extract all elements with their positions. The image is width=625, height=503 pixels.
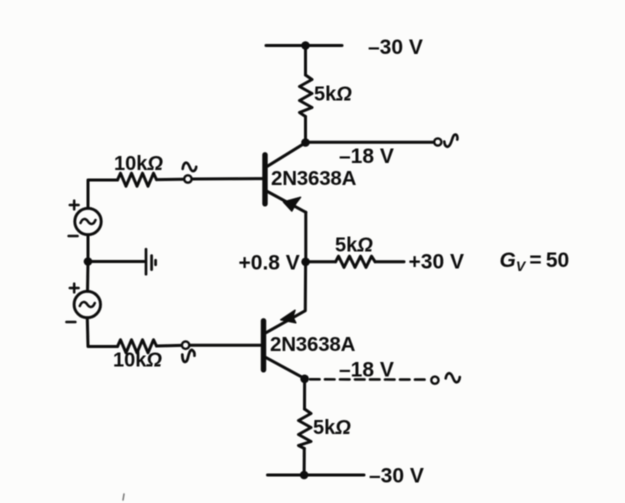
transistor Q2 emitter arrowhead (PNP, points to base) (281, 310, 296, 323)
sine squiggle above top input (183, 163, 197, 171)
wire R2 to +30V (375, 260, 404, 263)
wire V2 bottom to corner and right (87, 318, 117, 347)
wire node down to Q2 emitter (266, 262, 306, 333)
terminal input top (open circle) (184, 175, 191, 182)
wire top supply rail (266, 44, 342, 47)
wire upper output (306, 141, 434, 144)
resistor R2 5k (mid, horizontal) (336, 256, 376, 267)
wire Q1 emitter to node (304, 212, 307, 261)
resistor R5 10k (bottom input) (118, 340, 157, 353)
wire center node to V2 top (86, 262, 90, 292)
wire lower output (dashed) (310, 378, 426, 381)
svg-text:–18 V: –18 V (339, 358, 394, 381)
wire input terminal to Q1 base (192, 177, 262, 180)
wire R4 to input terminal (157, 178, 184, 181)
speck bottom left (123, 494, 124, 500)
wire R5 to input terminal (157, 344, 182, 348)
terminal lower output (open circle) (431, 377, 438, 384)
transistor Q1 emitter lead (267, 191, 306, 212)
sine squiggle lower output (446, 373, 460, 382)
node upper output junction (301, 138, 310, 147)
transistor Q2 collector lead (266, 357, 305, 378)
svg-text:10kΩ: 10kΩ (113, 350, 162, 372)
svg-text:–30 V: –30 V (369, 465, 424, 488)
minus sign V1 (69, 235, 78, 238)
sine squiggle upper output (444, 135, 457, 147)
wire R1 to collector node (304, 117, 307, 143)
plus sign V2 (70, 284, 79, 293)
svg-text:5kΩ: 5kΩ (314, 84, 352, 106)
transistor Q1 emitter arrowhead (PNP, points to base) (284, 197, 301, 211)
resistor R3 5k (bottom, vertical) (299, 409, 312, 449)
transistor Q1 collector lead (267, 143, 305, 167)
transistor Q1 2N3638A base bar (262, 155, 267, 204)
svg-text:GV = 50: GV = 50 (500, 249, 570, 274)
svg-text:2N3638A: 2N3638A (271, 167, 357, 190)
sine inside V1 (81, 219, 96, 224)
wire node to R2 (306, 260, 336, 263)
wire V1 bottom to center node (87, 235, 90, 262)
wire input terminal to Q2 base (190, 344, 261, 347)
svg-text:+30 V: +30 V (409, 251, 464, 274)
minus sign V2 (66, 321, 75, 324)
svg-text:5kΩ: 5kΩ (313, 417, 351, 439)
node top rail junction (301, 41, 310, 50)
svg-text:2N3638A: 2N3638A (270, 333, 356, 356)
transistor Q2 2N3638A base bar (261, 321, 266, 370)
wire center node to ground (88, 260, 144, 263)
resistor R4 10k (top input) (118, 173, 157, 186)
wire V1 top to corner and right (88, 180, 118, 208)
svg-text:+0.8 V: +0.8 V (239, 252, 300, 275)
svg-text:5kΩ: 5kΩ (335, 234, 373, 256)
source V2 (bottom AC source) (74, 291, 100, 317)
node center tap (84, 257, 93, 266)
wire rail to R1 (304, 46, 307, 76)
svg-text:–30 V: –30 V (368, 36, 423, 59)
svg-text:–18 V: –18 V (339, 145, 394, 168)
node lower output junction (300, 375, 309, 384)
wire R3 to bottom rail (303, 449, 306, 476)
node bottom rail junction (300, 471, 309, 480)
ground symbol (146, 249, 156, 274)
wire node to R3 (303, 379, 306, 409)
sine inside V2 (80, 302, 95, 307)
wire bottom supply rail (268, 474, 365, 477)
svg-text:10kΩ: 10kΩ (114, 153, 163, 175)
resistor R1 5k (top, vertical) (300, 75, 313, 117)
sine squiggle below bottom input (182, 350, 194, 362)
terminal input bottom (open circle) (182, 342, 189, 349)
source V1 (top AC source) (75, 208, 101, 234)
terminal upper output (open circle) (434, 138, 441, 145)
plus sign V1 (70, 201, 79, 210)
node +0.8V junction (301, 258, 310, 267)
